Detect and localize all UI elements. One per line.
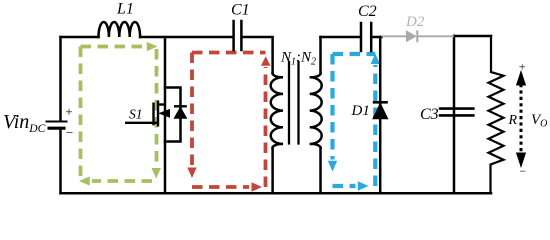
wire left vertical bottom (source -) <box>59 129 62 193</box>
Vo measurement arrow <box>517 72 526 167</box>
svg-text:+: + <box>65 104 74 119</box>
wire gray link C2 node to D2 <box>382 30 455 42</box>
diode D1 <box>373 102 388 118</box>
wire body diode branch of S1 <box>165 88 181 142</box>
blue current loop (secondary / D1 loop) <box>328 54 380 191</box>
wire C3 branch vertical <box>453 36 456 193</box>
wire top rail L1 to C1 <box>140 36 232 39</box>
svg-text:C2: C2 <box>358 3 377 20</box>
diode D2 (inactive, gray) <box>406 30 417 42</box>
transformer core <box>289 62 299 144</box>
capacitor C1 <box>234 21 242 50</box>
svg-text:L1: L1 <box>116 1 134 18</box>
svg-text:C3: C3 <box>420 106 439 123</box>
red current loop (S1 / C1 loop) <box>187 53 270 192</box>
green current loop (input loop) <box>79 42 161 186</box>
svg-text:−: − <box>519 164 527 178</box>
transformer primary winding <box>271 74 283 148</box>
diode body diode of S1 <box>174 106 187 118</box>
inductor L1 <box>99 22 141 37</box>
wire C1 to transformer primary top <box>243 37 273 74</box>
wire bottom rail <box>61 192 492 195</box>
svg-text:−: − <box>65 125 74 140</box>
svg-text:R: R <box>508 113 518 128</box>
svg-text:D2: D2 <box>405 14 425 30</box>
wire secondary top lead <box>319 37 322 74</box>
wire secondary bottom lead <box>319 148 322 194</box>
transformer secondary winding <box>310 74 322 148</box>
svg-text:+: + <box>518 60 526 74</box>
svg-text:C1: C1 <box>231 2 250 19</box>
svg-text:N1:N2: N1:N2 <box>280 50 316 68</box>
transistor S1 (MOSFET symbol) <box>125 101 170 127</box>
wire left vertical top (source +) <box>59 37 62 121</box>
resistor R <box>489 36 504 193</box>
wire top rail output section <box>454 35 491 38</box>
svg-text:S1: S1 <box>129 107 143 122</box>
wire top rail left segment <box>61 36 99 39</box>
source Vin plates <box>46 122 68 129</box>
svg-text:D1: D1 <box>351 103 370 119</box>
wire C2 to node of D1 <box>372 36 381 39</box>
wire top rail secondary to C2 <box>321 36 360 39</box>
wire D1 branch vertical <box>379 37 382 193</box>
capacitor C2 <box>361 23 371 51</box>
wire S1 branch vertical <box>164 37 167 193</box>
wire gray D2 to output node <box>418 35 454 37</box>
wire primary bottom lead <box>271 148 274 194</box>
capacitor C3 plates <box>439 109 475 116</box>
